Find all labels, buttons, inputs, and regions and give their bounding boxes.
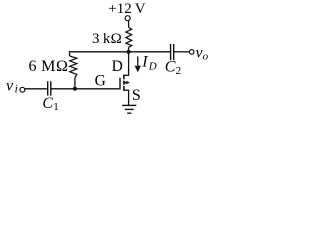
- wire feedback elbow down to RF: [69, 51, 71, 56]
- svg-text:2: 2: [176, 65, 182, 77]
- ID current arrow shaft: [137, 56, 139, 67]
- ground symbol bar 3: [127, 112, 131, 114]
- svg-text:C: C: [165, 58, 176, 75]
- svg-text:G: G: [95, 73, 106, 90]
- MOSFET Q1 substrate arrowhead: [124, 81, 128, 85]
- ID current arrowhead: [135, 66, 141, 72]
- MOSFET Q1 channel segment bottom: [123, 86, 125, 91]
- svg-text:D: D: [148, 60, 157, 72]
- capacitor C2 plates: [170, 44, 172, 60]
- wire RD bottom lead to drain node: [128, 47, 130, 52]
- wire feedback horizontal (drain node to RF top): [70, 51, 129, 53]
- MOSFET Q1 channel segment middle: [123, 81, 125, 85]
- ground symbol bar 2: [125, 108, 134, 110]
- MOSFET Q1 channel segment top: [123, 75, 125, 80]
- wire RF bottom lead to gate node: [74, 78, 76, 89]
- svg-text:1: 1: [53, 101, 59, 113]
- svg-text:6 MΩ: 6 MΩ: [29, 58, 69, 75]
- MOSFET Q1 substrate stub: [125, 82, 130, 84]
- svg-text:S: S: [132, 87, 141, 104]
- svg-text:3 kΩ: 3 kΩ: [92, 31, 122, 47]
- svg-text:D: D: [112, 58, 123, 75]
- node drain junction dot: [127, 50, 131, 54]
- wire C1 to gate: [51, 88, 120, 90]
- node gate junction dot: [73, 87, 77, 91]
- wire source lead down to ground: [128, 90, 130, 105]
- MOSFET Q1 gate bar: [119, 78, 121, 90]
- svg-text:C: C: [42, 95, 53, 112]
- MOSFET Q1 source stub: [124, 89, 129, 91]
- wire input to C1: [25, 88, 47, 90]
- MOSFET Q1 drain stub: [124, 74, 129, 76]
- svg-text:o: o: [203, 51, 209, 63]
- resistor RF 6MOhm zigzag: [70, 56, 77, 78]
- +12V supply terminal circle: [125, 16, 130, 21]
- ground symbol bar 1: [122, 104, 136, 106]
- svg-text:+12 V: +12 V: [108, 1, 145, 17]
- input terminal circle: [20, 87, 25, 92]
- capacitor C1 plates: [47, 81, 49, 95]
- svg-text:i: i: [15, 84, 18, 96]
- wire C2 to output terminal: [174, 51, 189, 53]
- svg-text:v: v: [6, 77, 14, 94]
- output terminal circle: [189, 50, 194, 55]
- wire supply circle to resistor RD: [128, 20, 130, 27]
- resistor RD 3kOhm zigzag: [126, 27, 132, 47]
- svg-text:I: I: [141, 54, 148, 71]
- wire drain lead (node to drain stub): [128, 52, 130, 76]
- wire drain node to C2: [129, 51, 170, 53]
- svg-text:v: v: [196, 45, 203, 62]
